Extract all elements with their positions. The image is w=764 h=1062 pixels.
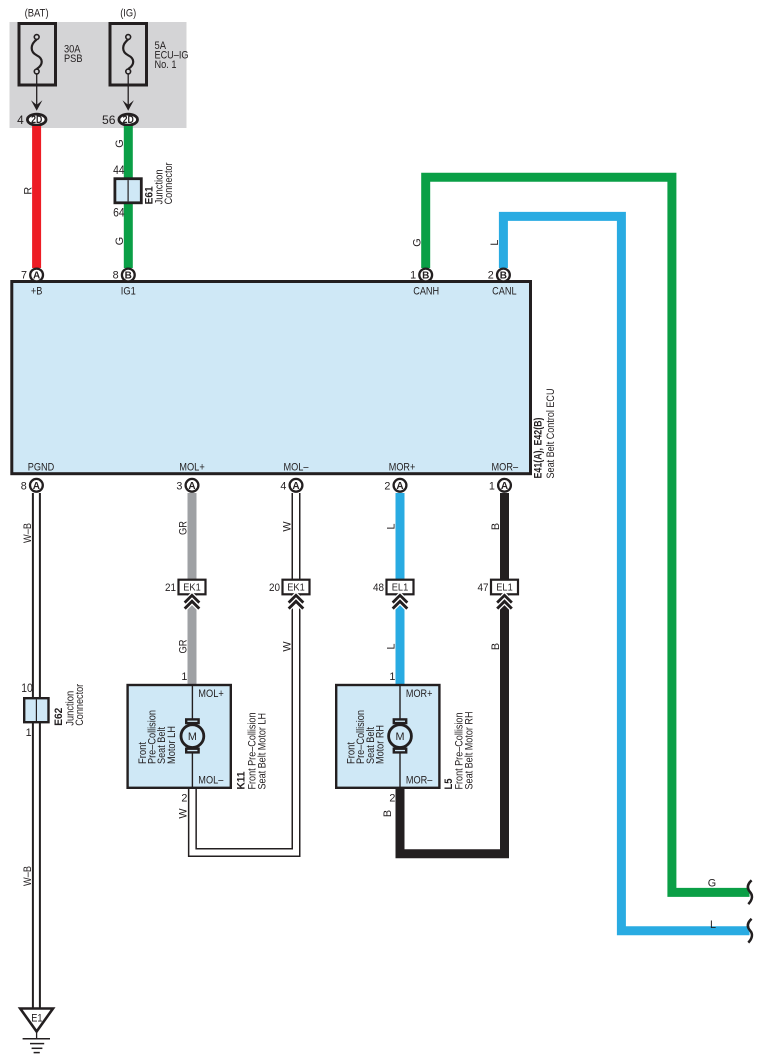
wire G (green) from 2D to IG1 via E61 [124,126,133,268]
svg-text:A: A [292,481,299,492]
pin 8 B [122,269,135,282]
junction connector E62 [24,698,48,722]
svg-text:2: 2 [181,793,187,805]
svg-text:L: L [386,523,398,529]
svg-text:G: G [114,237,126,245]
fuse F2 5A ECU-IG No.1 [110,24,147,86]
svg-text:3: 3 [176,480,182,492]
svg-text:MOR+: MOR+ [389,461,416,473]
svg-text:MOL+: MOL+ [198,688,224,700]
ECU box E41/E42 [12,282,531,474]
wire W MOL- U-path [192,594,296,852]
svg-text:L: L [489,240,501,246]
svg-text:MOR+: MOR+ [406,688,433,700]
svg-text:(BAT): (BAT) [25,7,49,19]
pin 2 B [497,269,510,282]
svg-text:20: 20 [269,582,280,594]
pin 3 A MOL+ [186,479,199,492]
svg-text:E1: E1 [31,1012,42,1024]
svg-text:B: B [500,271,507,282]
svg-text:B: B [125,271,132,282]
svg-text:W–B: W–B [22,866,34,886]
connector chevrons 48 EL1 [393,595,408,602]
svg-text:Connector: Connector [163,162,175,204]
svg-text:(IG): (IG) [120,7,136,19]
svg-text:Seat Belt Motor LH: Seat Belt Motor LH [256,713,268,790]
svg-text:G: G [411,238,423,246]
connector chevrons 20 EK1 [289,595,304,602]
svg-text:1: 1 [389,671,395,683]
pin 8 A PGND [30,479,43,492]
svg-text:1: 1 [26,727,32,739]
svg-text:CANL: CANL [492,286,517,298]
svg-text:47: 47 [478,582,489,594]
svg-text:Seat Belt Motor RH: Seat Belt Motor RH [464,712,476,790]
svg-text:4: 4 [17,113,24,127]
svg-text:A: A [33,271,40,282]
ground E1 [20,1009,53,1032]
connector chevrons 47 EL1 [497,595,512,602]
svg-text:M: M [396,731,405,743]
wire W-B PGND to ground [32,493,41,1009]
connector 48 EL1 [387,580,414,595]
connector 2D pin 4 [27,114,46,125]
wire R (red) from 2D to +B [32,126,41,268]
svg-text:2D: 2D [31,114,42,126]
svg-text:Motor LH: Motor LH [166,726,178,764]
svg-text:PSB: PSB [64,53,83,65]
svg-text:56: 56 [102,113,116,127]
svg-text:MOL–: MOL– [198,774,223,786]
pin 4 A MOL- [290,479,303,492]
svg-text:W: W [282,521,294,532]
svg-text:A: A [188,481,195,492]
svg-text:2: 2 [384,480,390,492]
wire break symbol L [748,919,752,943]
svg-text:MOL–: MOL– [284,461,309,473]
svg-text:Connector: Connector [74,683,86,725]
svg-text:L: L [710,919,716,931]
connector 47 EL1 [491,580,518,595]
svg-text:B: B [490,643,502,650]
connector 21 EK1 [179,580,206,595]
svg-text:W: W [178,808,190,819]
svg-text:A: A [33,481,40,492]
motor symbol M (L5) [389,725,412,748]
svg-text:W–B: W–B [22,523,34,543]
svg-text:L: L [386,643,398,649]
motor L5 Front Pre-Collision Seat Belt Motor RH [336,685,439,788]
svg-text:8: 8 [113,270,119,282]
svg-text:48: 48 [373,582,384,594]
svg-text:1: 1 [181,671,187,683]
svg-text:Motor RH: Motor RH [374,725,386,764]
pin 1 B [419,269,432,282]
svg-text:64: 64 [113,206,125,220]
svg-text:10: 10 [21,681,33,695]
svg-text:1: 1 [410,270,416,282]
wire L MOR+ [396,493,405,580]
motor symbol M (K11) [181,725,204,748]
wire B MOR- [500,493,509,580]
svg-text:No. 1: No. 1 [155,59,177,71]
wire L (blue) CANL [503,216,749,930]
pin 1 A MOR- [498,479,511,492]
motor K11 Front Pre-Collision Seat Belt Motor LH [128,685,231,788]
svg-text:E41(A), E42(B): E41(A), E42(B) [533,417,545,478]
pin 7 A [30,269,43,282]
svg-text:44: 44 [113,163,125,177]
svg-text:B: B [382,810,394,817]
svg-text:CANH: CANH [413,286,439,298]
svg-text:8: 8 [21,480,27,492]
connector 2D pin 56 [119,114,138,125]
svg-text:GR: GR [178,639,190,653]
svg-text:A: A [396,481,403,492]
svg-text:E62: E62 [53,708,65,726]
svg-text:21: 21 [165,582,176,594]
svg-text:IG1: IG1 [121,286,136,298]
svg-text:B: B [490,523,502,530]
svg-text:G: G [114,139,126,147]
svg-text:2: 2 [389,793,395,805]
svg-text:4: 4 [280,480,286,492]
wire F1 to connector 2D (arrow) [36,74,38,107]
wire GR MOL+ upper [188,493,197,685]
svg-text:MOL+: MOL+ [179,461,205,473]
svg-text:W: W [282,641,294,652]
svg-text:1: 1 [489,480,495,492]
svg-text:Seat Belt Control ECU: Seat Belt Control ECU [545,389,557,479]
svg-text:MOR–: MOR– [406,774,433,786]
svg-text:MOR–: MOR– [492,461,519,473]
svg-text:PGND: PGND [28,461,55,473]
wire F2 to connector 2D (arrow) [127,74,129,107]
fuse panel box [10,22,187,128]
junction connector E61 [115,179,141,203]
svg-text:G: G [708,877,716,889]
svg-text:2: 2 [488,270,494,282]
wire G (green) CANH [426,177,750,892]
connector 20 EK1 [283,580,310,595]
svg-text:R: R [22,187,34,195]
motor internal wire [399,685,401,719]
svg-text:A: A [501,481,508,492]
pin 2 A MOR+ [394,479,407,492]
wire break symbol G [748,880,752,904]
connector chevrons 21 EK1 [185,595,200,602]
motor internal wire [191,685,193,719]
wire W MOL- upper [292,493,301,580]
svg-text:M: M [188,731,197,743]
wire B MOR- U-path [400,594,505,853]
fuse F1 30A PSB [19,24,56,86]
svg-text:+B: +B [31,286,43,298]
svg-text:GR: GR [178,521,190,535]
svg-text:2D: 2D [123,114,134,126]
svg-text:7: 7 [21,270,27,282]
svg-text:B: B [422,271,429,282]
